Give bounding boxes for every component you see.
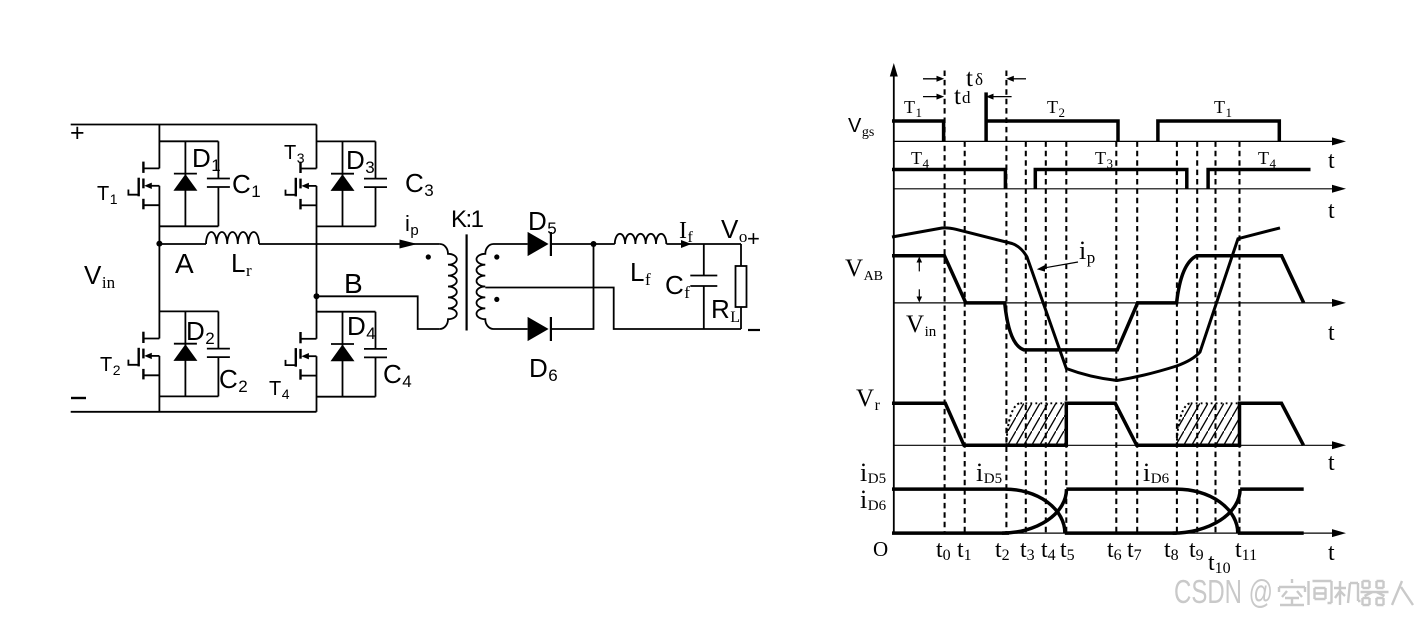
Vr hump1 leading curve (1007, 403, 1021, 445)
transistor T2 MOSFET symbol (139, 332, 144, 380)
watermark char ren (1392, 581, 1413, 605)
diode D5 (528, 232, 549, 256)
Vgs pulse T1 (first) (892, 121, 944, 141)
dimension arrow tdelta right (923, 78, 940, 80)
VAB waveform (892, 256, 1304, 350)
secondary polarity dot (bottom) (494, 297, 499, 302)
transistor T4 MOSFET symbol (296, 332, 301, 380)
dashed time line t8 (1176, 141, 1178, 533)
wire secondary top to D5 (494, 243, 528, 245)
capacitor C1 (snubber) (207, 141, 230, 226)
T4/T3 time axis (894, 188, 1338, 190)
Vr hump2 hatched area (1177, 403, 1240, 445)
dashed time line t7 (1136, 141, 1138, 533)
dimension arrow td left (991, 96, 1012, 98)
iD5/iD6 time axis (894, 532, 1338, 534)
dashed time line t5 (1065, 141, 1067, 533)
capacitor C3 (snubber) (364, 141, 387, 226)
svg-text:t: t (1328, 148, 1335, 174)
transistor T3 MOSFET symbol (296, 162, 301, 210)
wire node B to transformer primary bottom (317, 296, 440, 329)
T4 pulse (second) (1208, 170, 1310, 189)
wire junction to Lf (594, 243, 615, 245)
dashed time line t4 (1045, 141, 1047, 533)
wire D6 cathode up to D5 junction (551, 244, 594, 329)
Vr time axis (894, 444, 1338, 446)
node A junction dot (156, 241, 162, 247)
iD6 top then falling arc (892, 489, 1065, 533)
transistor T3 leg wire (316, 125, 318, 297)
watermark char jian (1309, 581, 1332, 605)
svg-text:t: t (1328, 198, 1335, 224)
transistor T1 leg wire (158, 125, 160, 244)
transformer primary winding (440, 244, 457, 329)
wire Lf to output node (666, 243, 741, 245)
wire: top DC rail (71, 124, 317, 126)
iD6 rising arc (1173, 489, 1241, 533)
Vgs pulse T1 (second) (1158, 121, 1279, 141)
Vr hump1 dotted top (1020, 402, 1066, 404)
Vr hump1 hatched area (1007, 403, 1067, 445)
dimension arrow td right (923, 96, 940, 98)
dashed time line t2 (1005, 71, 1007, 534)
transistor T4 leg wire (316, 296, 318, 412)
wire D5 cathode to junction (551, 243, 594, 245)
current arrow ip on primary wire (400, 240, 418, 249)
wire secondary center tap (485, 288, 741, 330)
label - (Vin negative terminal) (71, 397, 86, 399)
svg-text:t: t (1328, 540, 1335, 566)
diode D6 (528, 317, 549, 341)
Vgs time axis (894, 140, 1338, 142)
wire: bottom DC rail (71, 411, 317, 413)
watermark char kong (1279, 579, 1305, 605)
svg-text:t: t (1328, 450, 1335, 476)
diode D2 (body diode) (159, 311, 218, 396)
capacitor C4 (snubber) (364, 312, 387, 397)
waveform vertical axis spine (893, 75, 895, 533)
dashed time line t1 (964, 141, 966, 533)
inductor Lr (206, 232, 259, 244)
watermark char qi (1361, 581, 1389, 605)
dashed time line t11 (1238, 141, 1240, 533)
inductor Lf (615, 234, 667, 244)
svg-text:O: O (873, 537, 888, 561)
dashed time line t0 (944, 71, 946, 534)
iD5 rising arc (1002, 489, 1067, 533)
T3 pulse (1035, 170, 1187, 189)
watermark char ji (1334, 581, 1361, 605)
iD5 top then falling arc (1066, 489, 1238, 533)
svg-text:+: + (747, 226, 760, 251)
T4 pulse (first) (892, 170, 1005, 189)
iD5/iD6 zero line segments (892, 531, 1009, 535)
Vr waveform (892, 403, 1304, 445)
primary polarity dot (426, 254, 431, 259)
dashed time line t10 (1214, 141, 1216, 533)
ip primary current waveform (892, 228, 1280, 381)
svg-text:t: t (1328, 320, 1335, 346)
Vr hump2 leading curve (1177, 403, 1191, 445)
svg-text:B: B (344, 268, 363, 299)
svg-text:A: A (175, 248, 194, 279)
capacitor C2 (snubber) (207, 311, 230, 396)
node B junction dot (314, 293, 320, 299)
wire Lr to transformer primary (259, 243, 440, 245)
iD6 top final (1240, 487, 1304, 491)
wire secondary bottom to D6 (494, 328, 528, 330)
capacitor Cf (690, 244, 717, 329)
transistor T2 leg wire (158, 244, 160, 412)
diode D1 (body diode) (159, 141, 218, 226)
current arrow If (681, 240, 691, 248)
svg-text:+: + (70, 119, 85, 147)
Vin amplitude arrows (918, 260, 920, 271)
dashed time line t9 (1196, 141, 1198, 533)
svg-text:CSDN @: CSDN @ (1174, 573, 1273, 610)
dashed time line t3 (1025, 141, 1027, 533)
dimension arrow tdelta left (1010, 78, 1026, 80)
svg-text:td: td (954, 83, 971, 110)
VAB time axis (894, 302, 1338, 304)
transformer secondary winding (476, 244, 493, 329)
diode D4 (body diode) (317, 312, 376, 397)
wire node A to Lr (159, 243, 206, 245)
resistor RL (740, 244, 742, 266)
diode D3 (body diode) (317, 141, 376, 226)
secondary polarity dot (top) (494, 254, 499, 259)
dashed time line t6 (1115, 141, 1117, 533)
transistor T1 MOSFET symbol (139, 162, 144, 210)
svg-text:K:1: K:1 (451, 206, 484, 233)
transformer core (466, 234, 468, 330)
Vgs pulse T2 with extended rising edge (984, 92, 988, 141)
junction dot rectifier output (591, 241, 597, 247)
Vr hump2 dotted top (1191, 402, 1240, 404)
label - output (748, 329, 760, 331)
